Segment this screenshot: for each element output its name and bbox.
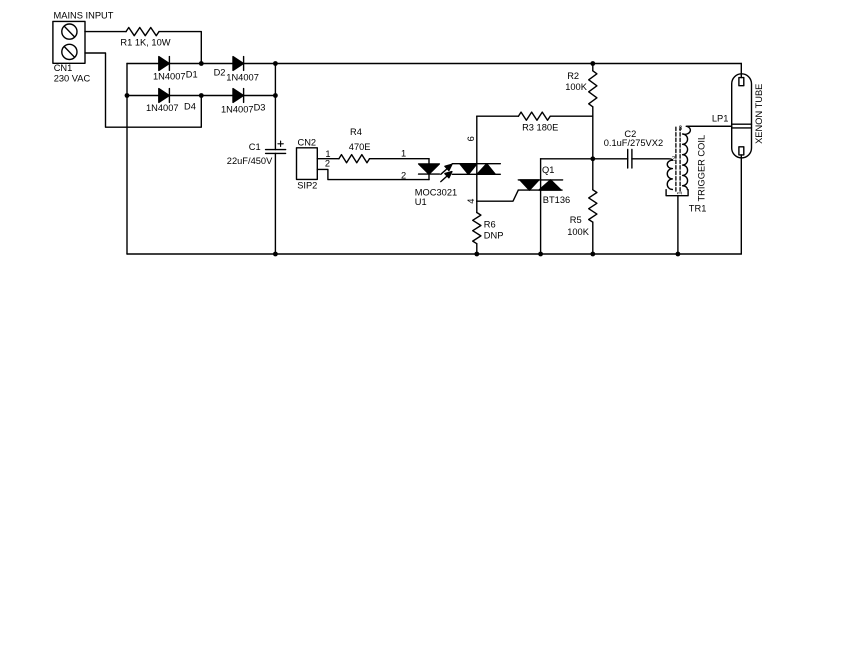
svg-text:DNP: DNP — [484, 231, 504, 241]
lamp LP1 xenon tube body — [732, 74, 752, 158]
node R5 bottom — [590, 252, 595, 257]
resistor R4 — [339, 155, 370, 163]
wire C2 to TR1 — [632, 159, 673, 160]
transformer TR1 core — [676, 127, 680, 191]
svg-text:MAINS INPUT: MAINS INPUT — [54, 11, 114, 21]
svg-text:U1: U1 — [415, 197, 427, 207]
node C1 bottom — [273, 252, 278, 257]
node bridge mid row2 — [199, 93, 204, 98]
svg-text:TRIGGER COIL: TRIGGER COIL — [696, 135, 706, 202]
wire LP1 cathode to bottom rail — [740, 155, 742, 254]
node Q1 C2 R5 — [590, 156, 595, 161]
svg-text:1N4007: 1N4007 — [153, 71, 186, 81]
svg-text:XENON TUBE: XENON TUBE — [754, 84, 764, 144]
svg-text:22uF/450V: 22uF/450V — [227, 156, 273, 166]
wire R3 right — [550, 115, 592, 117]
wire U1 pin6 pin4 vertical — [476, 116, 478, 201]
svg-text:100K: 100K — [567, 227, 590, 237]
svg-text:D4: D4 — [184, 101, 196, 111]
diode D1 — [159, 57, 170, 71]
svg-text:CN2: CN2 — [298, 138, 317, 148]
connector CN1 body — [53, 21, 85, 63]
svg-text:D3: D3 — [254, 102, 266, 112]
svg-text:R5: R5 — [570, 215, 582, 225]
svg-text:1: 1 — [677, 191, 684, 195]
node R1 top rail — [199, 61, 204, 66]
diode D3 — [233, 89, 244, 103]
op-amp U1 emission arrows — [441, 164, 452, 181]
resistor R6 — [473, 201, 481, 254]
transformer TR1 primary winding — [667, 160, 672, 189]
node R2 top rail — [590, 61, 595, 66]
resistor R3 — [518, 112, 550, 120]
wire bridge right vertical — [274, 64, 276, 96]
svg-text:R4: R4 — [350, 127, 362, 137]
node TR1 bottom — [676, 252, 681, 257]
wire U1 pin4 to Q1 gate — [477, 190, 519, 201]
svg-text:100K: 100K — [565, 82, 588, 92]
wire CN2 pin1 — [317, 158, 339, 160]
transformer TR1 secondary winding — [683, 126, 732, 189]
wire bridge row2 — [127, 95, 275, 97]
svg-text:R1 1K, 10W: R1 1K, 10W — [120, 38, 170, 48]
capacitor C2 — [593, 150, 632, 169]
wire CN1 pin1 to R1 — [85, 31, 126, 33]
resistor R2 — [589, 64, 597, 117]
diode D4 — [159, 89, 170, 103]
svg-text:2: 2 — [672, 155, 676, 162]
capacitor C1 — [266, 96, 286, 255]
svg-text:SIP2: SIP2 — [297, 180, 317, 190]
wire Q1 MT2 to node — [541, 158, 593, 160]
svg-text:D2: D2 — [214, 67, 226, 77]
op-amp U1 phototriac — [452, 164, 500, 175]
wire left vertical — [126, 64, 128, 255]
wire CN2 pin2 to U1 pin2 — [317, 169, 429, 179]
svg-text:1: 1 — [401, 148, 406, 158]
svg-text:LP1: LP1 — [712, 113, 729, 123]
transistor Q1 triac — [518, 180, 562, 190]
svg-text:Q1: Q1 — [542, 165, 554, 175]
op-amp U1 LED — [419, 159, 440, 180]
wire mid vertical — [592, 116, 594, 159]
svg-text:BT136: BT136 — [543, 195, 570, 205]
wire bottom rail — [127, 253, 741, 255]
svg-text:6: 6 — [466, 136, 476, 141]
svg-text:R3 180E: R3 180E — [522, 122, 558, 132]
transformer TR1 base bracket — [666, 190, 688, 196]
svg-text:R6: R6 — [484, 220, 496, 230]
svg-text:C1: C1 — [249, 142, 261, 152]
svg-text:1N4007: 1N4007 — [221, 104, 254, 114]
svg-text:2: 2 — [325, 158, 330, 168]
svg-text:0.1uF/275VX2: 0.1uF/275VX2 — [604, 138, 663, 148]
diode D2 — [233, 57, 244, 71]
wire top rail — [127, 63, 741, 65]
node R6 bottom — [474, 252, 479, 257]
wire R1 to top rail — [159, 32, 201, 64]
svg-text:CN1: CN1 — [54, 63, 73, 73]
wire TR1 pin3 to LP1 trigger — [686, 125, 732, 127]
node Q1 bottom — [538, 252, 543, 257]
wire Q1 vertical — [540, 159, 542, 254]
resistor R5 — [589, 159, 597, 254]
svg-text:1N4007: 1N4007 — [226, 73, 259, 83]
svg-text:230 VAC: 230 VAC — [54, 74, 91, 84]
svg-text:TR1: TR1 — [689, 204, 707, 214]
resistor R1 — [126, 28, 159, 36]
wire R4 to U1 pin1 — [370, 158, 430, 160]
wire R3 left — [477, 115, 519, 117]
svg-text:1N4007: 1N4007 — [146, 103, 179, 113]
svg-text:470E: 470E — [349, 142, 371, 152]
node bridge right row2 — [273, 93, 278, 98]
svg-text:4: 4 — [466, 199, 476, 204]
svg-text:D1: D1 — [186, 69, 198, 79]
node bridge left row2 — [125, 93, 130, 98]
wire top rail to LP1 anode — [740, 64, 742, 78]
wire CN1 pin2 return — [85, 53, 201, 127]
svg-text:R2: R2 — [567, 71, 579, 81]
svg-text:2: 2 — [401, 171, 406, 181]
node bridge out top — [273, 61, 278, 66]
svg-text:3: 3 — [679, 125, 683, 132]
connector CN2 body — [297, 148, 318, 180]
wire TR1 pin1 to bottom rail — [677, 196, 679, 254]
